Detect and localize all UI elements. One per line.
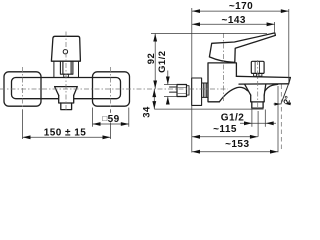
- spout widest extension line: [277, 86, 279, 152]
- side view: underside arch left: [219, 87, 247, 102]
- side view: hex nut: [177, 85, 187, 97]
- square59 extension stubs: [93, 108, 129, 127]
- front view: spout funnel: [55, 87, 78, 96]
- 2deg dashed reference line: [280, 85, 282, 151]
- side view: outlet aerator: [252, 102, 263, 108]
- right escutcheon centerline: [110, 67, 112, 110]
- dim line 92 vertical: [154, 34, 156, 89]
- arrows 150pm15: [23, 135, 31, 139]
- arrows G1/2 left: [166, 77, 170, 85]
- wall plane extension line: [191, 8, 193, 153]
- arrows ~170: [192, 9, 200, 13]
- side view: diverter knob: [251, 61, 264, 73]
- side cap centerline: [222, 33, 224, 101]
- escutcheon center ext stubs: [23, 110, 111, 139]
- dim line ~115: [192, 136, 258, 138]
- side view: spout end face: [289, 78, 291, 84]
- side view: spout slab bottom: [239, 83, 289, 85]
- front view: aerator: [61, 103, 72, 110]
- dim line square59: [93, 123, 129, 125]
- front view: right wall escutcheon: [93, 72, 130, 106]
- dim line ~153: [192, 151, 278, 153]
- extension + dimension lines: [23, 8, 292, 153]
- svg-text:~153: ~153: [225, 139, 249, 150]
- lever top extension line: [151, 33, 267, 35]
- front view: neck inner lines: [60, 61, 73, 74]
- side view: knob feet: [254, 73, 262, 76]
- side view: spout slab top: [236, 76, 290, 77]
- front view: handle screw circle: [63, 50, 67, 54]
- side view: knob inner lines: [255, 62, 260, 74]
- arrows ~115: [192, 135, 200, 139]
- front view: handle cap: [51, 36, 80, 61]
- side view: hex facet lines: [177, 88, 187, 94]
- svg-text:~170: ~170: [229, 1, 253, 12]
- spout end extension line: [288, 9, 290, 84]
- arrows ~143: [192, 22, 200, 26]
- svg-text:G1/2: G1/2: [221, 112, 244, 123]
- side view: underside arch right: [265, 84, 278, 91]
- svg-text:2°: 2°: [281, 94, 293, 105]
- dim line G1/2 left vertical: [167, 71, 169, 104]
- arrows 34: [152, 89, 156, 97]
- side view: thread hatch: [203, 83, 206, 97]
- arrows square59: [93, 122, 101, 126]
- side view: wall escutcheon plate: [192, 78, 202, 105]
- front view: left wall escutcheon: [4, 72, 41, 106]
- 2deg arrows tails: [274, 102, 292, 105]
- arrows 92: [153, 34, 157, 42]
- front view: neck outline: [54, 61, 79, 77]
- arrows ~153: [192, 150, 200, 154]
- side view: cartridge housing: [208, 63, 236, 102]
- outlet edge extension lines: [252, 110, 265, 127]
- svg-text:34: 34: [142, 106, 153, 118]
- side view: supply pipe stub: [170, 87, 178, 92]
- 2deg slant line: [281, 84, 289, 105]
- svg-text:92: 92: [146, 53, 157, 64]
- outlet center extension line: [257, 111, 259, 137]
- dim line 34 vertical: [153, 89, 155, 109]
- outlet bottom extension line: [154, 108, 263, 110]
- front handle centerline: [65, 32, 67, 113]
- side view: outlet funnel: [245, 84, 266, 95]
- side view: outlet pipe: [251, 95, 265, 102]
- dim line ~143: [192, 23, 275, 25]
- svg-text:G1/2: G1/2: [157, 50, 168, 72]
- dim line 150pm15: [23, 136, 111, 138]
- arrows G1/2 bottom: [244, 121, 252, 125]
- dim line G1/2 bottom: [240, 122, 276, 124]
- front view: neck foot: [64, 74, 69, 77]
- horizontal main centerline: [0, 88, 228, 90]
- side view: lever cap outline: [209, 33, 275, 63]
- front view: body bar: [12, 78, 121, 99]
- outlet centerline: [257, 60, 259, 110]
- svg-text:~115: ~115: [213, 124, 237, 135]
- left escutcheon centerline: [22, 67, 24, 110]
- svg-text:□59: □59: [102, 114, 119, 125]
- hex edge extension lines: [164, 85, 177, 97]
- front view: spout pipe: [59, 95, 74, 103]
- front view: spout mask: [55, 87, 78, 110]
- arrowheads: [23, 9, 291, 153]
- arrows 2deg: [275, 103, 281, 106]
- lever tip extension line: [274, 22, 276, 34]
- svg-text:~143: ~143: [222, 15, 246, 26]
- dim line ~170: [192, 10, 289, 12]
- centerlines: [0, 32, 258, 113]
- svg-text:150 ± 15: 150 ± 15: [44, 127, 86, 138]
- side view: connector ring: [187, 86, 190, 95]
- label square 59: [101, 113, 120, 123]
- side view: threaded section: [202, 83, 208, 97]
